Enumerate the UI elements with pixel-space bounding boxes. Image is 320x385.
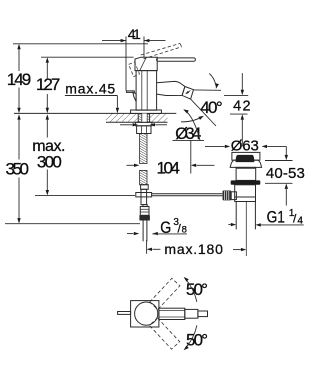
svg-text:300: 300 <box>37 153 62 172</box>
svg-text:40°: 40° <box>200 98 223 117</box>
svg-text:max.180: max.180 <box>164 241 223 257</box>
svg-text:42: 42 <box>233 99 251 115</box>
svg-text:50°: 50° <box>186 280 208 299</box>
svg-text:G1: G1 <box>267 208 285 226</box>
svg-text:350: 350 <box>6 160 30 179</box>
svg-text:41: 41 <box>128 26 141 42</box>
svg-text:50°: 50° <box>186 331 208 350</box>
svg-text:40-53: 40-53 <box>266 165 305 182</box>
svg-text:149: 149 <box>7 70 31 89</box>
svg-text:127: 127 <box>36 75 60 94</box>
svg-text:104: 104 <box>157 159 181 178</box>
svg-text:max.45: max.45 <box>65 81 115 97</box>
